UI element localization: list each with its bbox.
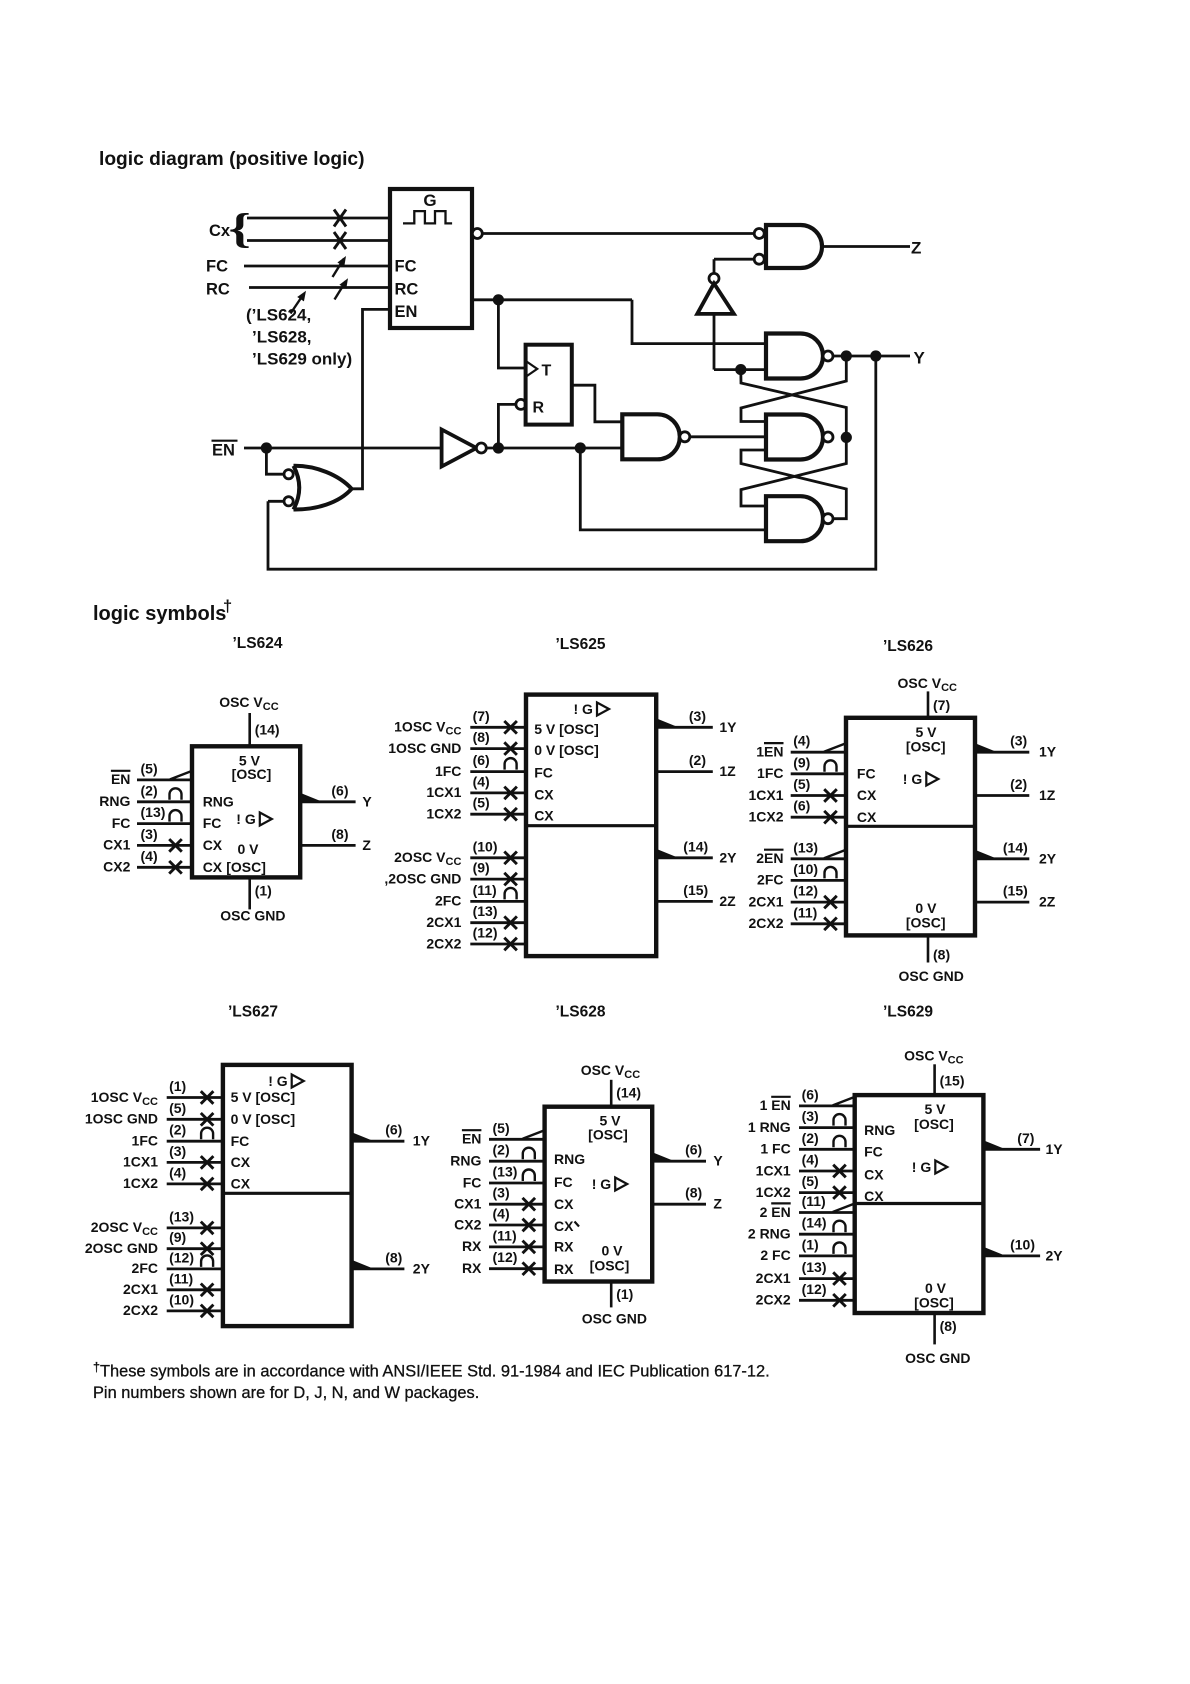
svg-text:RX: RX [462,1260,482,1276]
svg-text:1CX2: 1CX2 [426,806,461,822]
svg-text:[OSC]: [OSC] [906,739,946,755]
svg-text:’LS627: ’LS627 [228,1004,278,1021]
svg-text:R: R [533,400,545,417]
svg-text:(9): (9) [793,754,810,770]
svg-text:FC: FC [857,765,876,781]
svg-text:(14): (14) [616,1085,641,1101]
svg-text:1FC: 1FC [757,765,783,781]
svg-text:2Y: 2Y [1046,1247,1064,1263]
svg-text:(1): (1) [616,1286,633,1302]
svg-text:(2): (2) [169,1122,186,1138]
svg-text:(2): (2) [141,782,158,798]
svg-text:2Y: 2Y [1039,850,1057,866]
svg-text:FC: FC [112,815,131,831]
svg-text:5 V: 5 V [924,1101,946,1117]
svg-text:2FC: 2FC [435,893,461,909]
svg-text:(10): (10) [793,861,818,877]
svg-text:2CX2: 2CX2 [756,1292,791,1308]
svg-text:FC: FC [864,1144,883,1160]
svg-text:(15): (15) [1003,883,1028,899]
svg-text:1Y: 1Y [1046,1141,1064,1157]
svg-text:(4): (4) [793,733,810,749]
svg-text:(10): (10) [473,838,498,854]
svg-text:EN: EN [395,303,418,321]
svg-text:OSC GND: OSC GND [899,968,964,984]
svg-text:FC: FC [231,1133,250,1149]
svg-text:1CX1: 1CX1 [426,784,461,800]
svg-text:’LS624: ’LS624 [233,635,283,652]
svg-text:Y: Y [713,1153,723,1169]
svg-text:CX: CX [203,859,223,875]
svg-text:(3): (3) [689,708,706,724]
svg-text:2Y: 2Y [719,849,737,865]
svg-text:CX: CX [534,786,554,802]
svg-text:Pin numbers shown are for D, J: Pin numbers shown are for D, J, N, and W… [93,1384,479,1402]
svg-text:’LS629: ’LS629 [883,1004,933,1021]
svg-text:CX: CX [857,809,877,825]
svg-text:1Z: 1Z [719,763,736,779]
svg-text:(12): (12) [793,883,818,899]
svg-text:OSC GND: OSC GND [905,1350,970,1366]
svg-text:†: † [223,598,232,616]
svg-text:RNG: RNG [203,793,234,809]
svg-text:(6): (6) [685,1142,702,1158]
svg-text:CX: CX [231,1154,251,1170]
svg-text:2CX1: 2CX1 [123,1281,158,1297]
svg-text:(10): (10) [1010,1236,1035,1252]
svg-text:(13): (13) [473,903,498,919]
svg-text:(6): (6) [793,798,810,814]
svg-text:2CX2: 2CX2 [426,935,461,951]
svg-text:(8): (8) [933,947,950,963]
svg-text:(6): (6) [473,752,490,768]
svg-text:1 RNG: 1 RNG [748,1119,791,1135]
svg-text:2CX2: 2CX2 [748,915,783,931]
svg-text:(4): (4) [473,773,490,789]
svg-text:(14): (14) [1003,839,1028,855]
svg-text:2CX1: 2CX1 [748,893,783,909]
svg-text:RNG: RNG [554,1151,585,1167]
svg-text:(8): (8) [940,1318,957,1334]
svg-text:1CX2: 1CX2 [748,809,783,825]
svg-text:! G: ! G [912,1159,932,1175]
svg-text:2 FC: 2 FC [760,1247,790,1263]
svg-text:(8): (8) [331,826,348,842]
svg-text:(5): (5) [802,1173,819,1189]
svg-text:(2): (2) [1010,776,1027,792]
svg-text:(6): (6) [385,1122,402,1138]
svg-text:G: G [423,191,436,210]
svg-text:(5): (5) [493,1120,510,1136]
svg-text:[OSC]: [OSC] [588,1127,628,1143]
svg-text:(3): (3) [141,826,158,842]
svg-text:1CX1: 1CX1 [123,1154,158,1170]
svg-text:(9): (9) [473,860,490,876]
svg-text:1Y: 1Y [719,719,737,735]
svg-text:(10): (10) [169,1291,194,1307]
svg-text:EN: EN [111,771,130,787]
svg-text:Y: Y [914,349,926,368]
svg-text:2Z: 2Z [719,893,736,909]
svg-text:CX: CX [864,1166,884,1182]
svg-text:(13): (13) [169,1208,194,1224]
svg-text:0 V [OSC]: 0 V [OSC] [534,742,599,758]
svg-text:1CX2: 1CX2 [756,1184,791,1200]
svg-text:(7): (7) [933,697,950,713]
svg-text:1Y: 1Y [1039,744,1057,760]
svg-text:Y: Y [362,793,372,809]
svg-text:(8): (8) [685,1185,702,1201]
svg-text:5 V [OSC]: 5 V [OSC] [231,1089,296,1105]
svg-text:(’LS624,: (’LS624, [246,306,311,325]
svg-text:’LS629 only): ’LS629 only) [252,350,352,369]
svg-text:(15): (15) [940,1073,965,1089]
svg-text:FC: FC [395,258,417,276]
svg-text:RX: RX [462,1238,482,1254]
svg-text:(4): (4) [141,848,158,864]
svg-text:(8): (8) [385,1249,402,1265]
svg-text:CX: CX [857,787,877,803]
svg-text:! G: ! G [268,1073,288,1089]
svg-text:(4): (4) [169,1164,186,1180]
svg-text:! G: ! G [574,701,594,717]
svg-text:(13): (13) [141,804,166,820]
svg-text:(5): (5) [793,776,810,792]
svg-text:2CX1: 2CX1 [756,1270,791,1286]
svg-text:EN: EN [212,442,235,460]
svg-text:1FC: 1FC [132,1133,158,1149]
svg-text:CX: CX [864,1188,884,1204]
svg-text:1CX1: 1CX1 [756,1162,791,1178]
svg-text:logic symbols: logic symbols [93,603,226,625]
svg-text:1Z: 1Z [1039,787,1056,803]
svg-text:(2): (2) [802,1130,819,1146]
svg-text:2 RNG: 2 RNG [748,1226,791,1242]
svg-text:†These symbols are in accordan: †These symbols are in accordance with AN… [93,1361,770,1381]
svg-text:(7): (7) [1017,1130,1034,1146]
svg-text:1FC: 1FC [435,763,461,779]
svg-text:(1): (1) [169,1078,186,1094]
svg-text:{: { [229,205,251,251]
svg-text:OSC GND: OSC GND [582,1311,647,1327]
svg-text:1EN: 1EN [756,744,783,760]
svg-text:(14): (14) [683,838,708,854]
svg-text:EN: EN [462,1131,481,1147]
svg-text:(2): (2) [689,752,706,768]
svg-text:(11): (11) [169,1270,193,1286]
svg-text:[OSC]: [OSC] [226,859,266,875]
svg-text:1OSC GND: 1OSC GND [388,740,461,756]
svg-text:2EN: 2EN [756,850,783,866]
svg-text:2Z: 2Z [1039,894,1056,910]
svg-text:(4): (4) [493,1206,510,1222]
svg-text:[OSC]: [OSC] [906,915,946,931]
svg-text:FC: FC [554,1174,573,1190]
svg-text:CX: CX [554,1196,574,1212]
svg-text:[OSC]: [OSC] [914,1116,954,1132]
svg-text:(1): (1) [255,883,272,899]
svg-text:(3): (3) [169,1143,186,1159]
svg-text:CX2: CX2 [103,859,130,875]
svg-text:Z: Z [713,1196,722,1212]
svg-text:2CX1: 2CX1 [426,914,461,930]
svg-text:,2OSC GND: ,2OSC GND [384,870,461,886]
svg-text:(14): (14) [802,1215,827,1231]
svg-text:2 EN: 2 EN [760,1204,791,1220]
svg-text:(6): (6) [802,1086,819,1102]
svg-text:FC: FC [206,258,228,276]
svg-text:(5): (5) [141,760,158,776]
svg-text:1OSC GND: 1OSC GND [85,1111,158,1127]
svg-text:(3): (3) [493,1185,510,1201]
svg-text:(11): (11) [793,904,817,920]
svg-text:logic diagram (positive logic): logic diagram (positive logic) [99,149,364,170]
svg-text:CX1: CX1 [103,837,130,853]
svg-text:RX: RX [554,1239,574,1255]
svg-text:[OSC]: [OSC] [232,766,272,782]
svg-text:FC: FC [203,815,222,831]
svg-text:1CX1: 1CX1 [748,787,783,803]
svg-text:(13): (13) [493,1164,518,1180]
svg-text:’LS628: ’LS628 [556,1004,606,1021]
svg-text:(13): (13) [793,839,818,855]
svg-text:(3): (3) [1010,733,1027,749]
svg-text:(12): (12) [473,925,498,941]
svg-text:CX: CX [231,1176,251,1192]
svg-text:(1): (1) [802,1236,819,1252]
svg-text:! G: ! G [592,1176,612,1192]
svg-text:(4): (4) [802,1152,819,1168]
svg-text:CX1: CX1 [454,1196,481,1212]
svg-text:OSC GND: OSC GND [220,908,285,924]
svg-text:[OSC]: [OSC] [914,1295,954,1311]
svg-text:FC: FC [534,765,553,781]
svg-text:1 EN: 1 EN [760,1097,791,1113]
svg-text:[OSC]: [OSC] [590,1258,630,1274]
svg-text:2FC: 2FC [757,872,783,888]
svg-text:(14): (14) [255,722,280,738]
svg-text:(11): (11) [802,1193,826,1209]
svg-text:(2): (2) [493,1142,510,1158]
svg-text:CX: CX [203,837,223,853]
svg-text:1CX2: 1CX2 [123,1175,158,1191]
svg-text:! G: ! G [236,811,256,827]
svg-text:! G: ! G [903,771,923,787]
svg-text:RC: RC [395,281,419,299]
svg-text:(12): (12) [493,1249,518,1265]
svg-text:(8): (8) [473,729,490,745]
svg-text:0 V: 0 V [237,841,259,857]
svg-text:(12): (12) [802,1281,827,1297]
svg-text:Z: Z [362,837,371,853]
svg-text:(15): (15) [683,882,708,898]
svg-text:(12): (12) [169,1249,194,1265]
svg-text:1 FC: 1 FC [760,1141,790,1157]
svg-text:RNG: RNG [450,1153,481,1169]
svg-text:’LS625: ’LS625 [556,636,606,653]
svg-text:T: T [542,363,552,380]
svg-text:(11): (11) [493,1227,517,1243]
svg-text:0 V [OSC]: 0 V [OSC] [231,1111,296,1127]
svg-text:0 V: 0 V [601,1243,623,1259]
svg-text:’LS628,: ’LS628, [252,328,312,347]
svg-text:(6): (6) [331,782,348,798]
svg-text:(3): (3) [802,1108,819,1124]
svg-text:1Y: 1Y [413,1133,431,1149]
svg-text:(5): (5) [473,795,490,811]
svg-text:5 V [OSC]: 5 V [OSC] [534,721,599,737]
svg-text:’LS626: ’LS626 [883,638,933,655]
svg-text:RNG: RNG [864,1122,895,1138]
svg-text:(5): (5) [169,1100,186,1116]
svg-text:RC: RC [206,281,230,299]
svg-text:2Y: 2Y [413,1260,431,1276]
svg-text:(9): (9) [169,1229,186,1245]
svg-text:CX: CX [554,1218,574,1234]
svg-text:(13): (13) [802,1259,827,1275]
svg-text:RX: RX [554,1261,574,1277]
svg-text:CX: CX [534,808,554,824]
svg-text:CX2: CX2 [454,1216,481,1232]
svg-text:2OSC GND: 2OSC GND [85,1240,158,1256]
svg-text:2FC: 2FC [132,1260,158,1276]
svg-text:RNG: RNG [99,793,130,809]
svg-text:(11): (11) [473,882,497,898]
svg-text:Z: Z [911,239,921,258]
svg-text:FC: FC [463,1174,482,1190]
svg-text:(7): (7) [473,708,490,724]
svg-text:2CX2: 2CX2 [123,1302,158,1318]
